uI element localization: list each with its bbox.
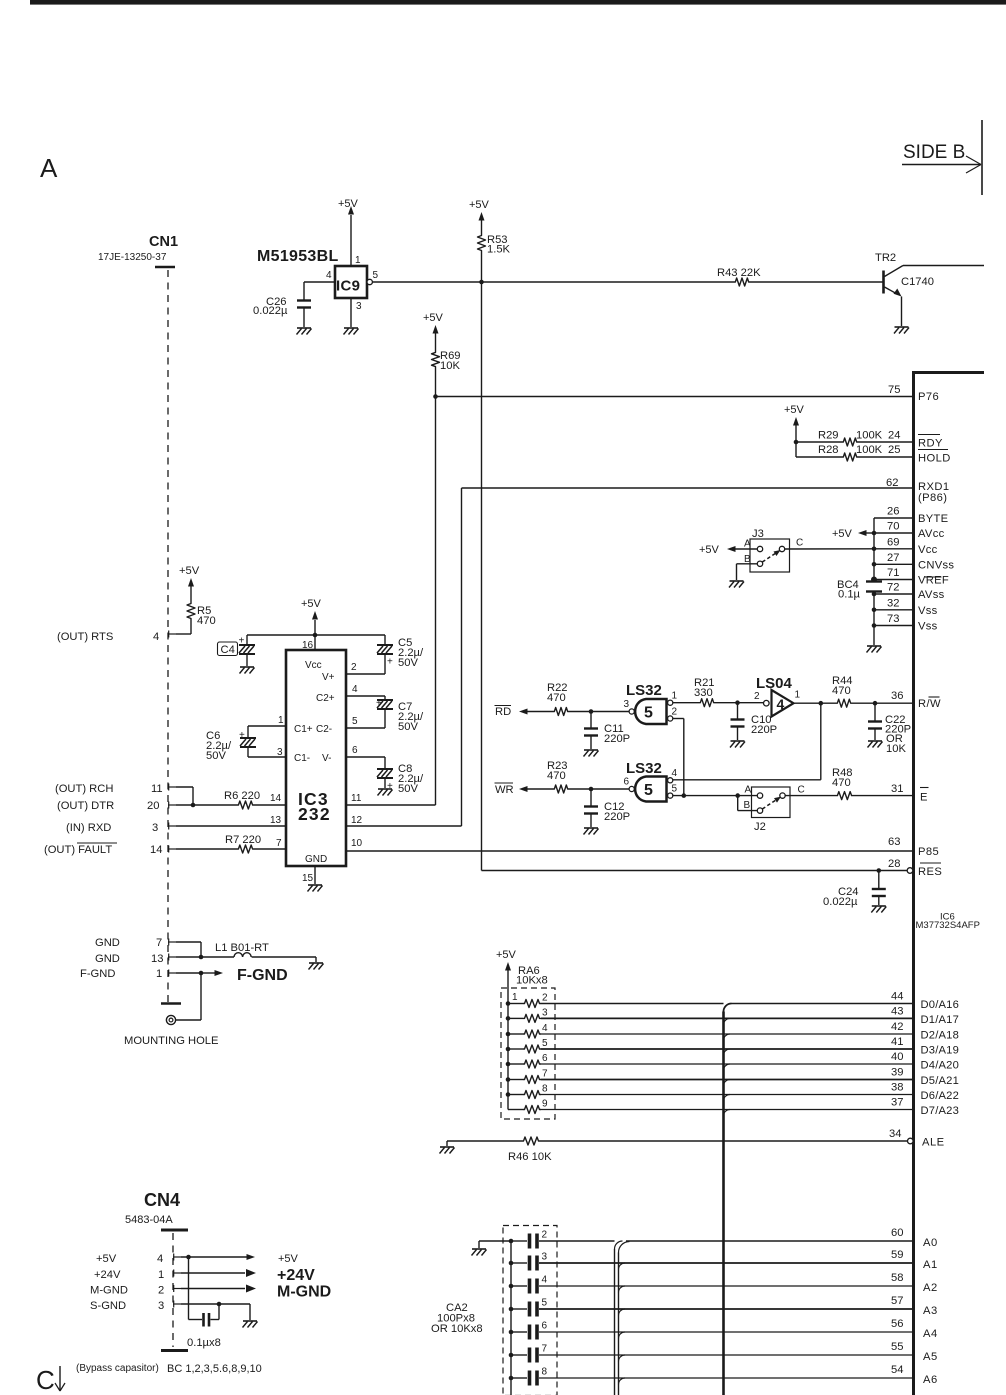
wire D4/A20 row pin 40 xyxy=(541,1063,912,1065)
TR2 collector wire to right edge xyxy=(903,265,984,267)
svg-text:OR 10Kx8: OR 10Kx8 xyxy=(431,1323,483,1335)
svg-text:L1 B01-RT: L1 B01-RT xyxy=(215,942,269,954)
junction R69/P76 row xyxy=(433,394,438,399)
svg-text:R43 22K: R43 22K xyxy=(717,267,761,279)
svg-text:R29: R29 xyxy=(818,430,839,442)
svg-text:LS32: LS32 xyxy=(626,682,662,699)
svg-text:4: 4 xyxy=(153,631,159,643)
wire IC6 pin 26 BYTE xyxy=(874,517,912,519)
wire A6 row pin 54 xyxy=(539,1377,912,1379)
resistor R53 1.5K xyxy=(478,234,486,252)
wire +24V row with arrow xyxy=(181,1272,245,1274)
bus entry hooks on second bus xyxy=(619,1263,626,1270)
svg-text:41: 41 xyxy=(891,1036,903,1048)
svg-text:C2-: C2- xyxy=(316,724,332,735)
svg-text:2: 2 xyxy=(542,993,548,1004)
svg-text:69: 69 xyxy=(887,536,899,548)
svg-text:A3: A3 xyxy=(923,1305,938,1317)
svg-text:5483-04A: 5483-04A xyxy=(125,1214,173,1226)
junction C24 xyxy=(877,868,882,873)
svg-text:220P: 220P xyxy=(751,724,777,736)
ground under C8 xyxy=(378,788,392,790)
second bus vertical (double line) xyxy=(614,1249,616,1395)
svg-text:8: 8 xyxy=(542,1367,548,1378)
svg-text:+5V: +5V xyxy=(278,1253,299,1265)
svg-text:F-GND: F-GND xyxy=(237,967,288,984)
svg-text:WR: WR xyxy=(495,784,514,796)
junction C12 xyxy=(589,787,594,792)
ground under C26 xyxy=(297,327,311,329)
svg-text:D6/A22: D6/A22 xyxy=(921,1090,960,1102)
svg-text:+5V: +5V xyxy=(179,565,200,577)
CN1 pin 11 tick xyxy=(168,784,170,791)
wire RXD1 row from IC3 pin12 riser to IC6 pin 62 xyxy=(462,487,913,489)
vertical wire R53 node down to RES row xyxy=(481,282,483,871)
svg-text:C: C xyxy=(796,538,803,549)
svg-text:(P86): (P86) xyxy=(918,492,947,504)
svg-text:(IN) RXD: (IN) RXD xyxy=(66,822,111,834)
svg-text:54: 54 xyxy=(891,1364,903,1376)
J3 B to ground xyxy=(737,563,758,565)
wire F-GND row xyxy=(176,972,201,974)
svg-text:59: 59 xyxy=(891,1249,903,1261)
svg-text:2: 2 xyxy=(158,1285,164,1297)
gate input bubble pin 1 xyxy=(668,700,673,705)
svg-text:C4: C4 xyxy=(221,644,235,656)
capacitor C26 xyxy=(303,282,305,300)
svg-text:1: 1 xyxy=(672,691,678,702)
resistor R69 10K xyxy=(432,351,440,368)
svg-text:1: 1 xyxy=(278,715,284,726)
connector CN4 dashed body xyxy=(172,1233,174,1347)
svg-text:D4/A20: D4/A20 xyxy=(921,1060,960,1072)
svg-text:A: A xyxy=(40,153,58,183)
svg-text:P76: P76 xyxy=(918,391,939,403)
TR2 emitter with arrow xyxy=(885,287,899,295)
svg-text:C1+: C1+ xyxy=(294,724,313,735)
ground under power bus xyxy=(867,645,881,647)
svg-text:R7 220: R7 220 xyxy=(225,834,261,846)
wire R53 down to node xyxy=(481,252,483,282)
J3 terminal A xyxy=(757,546,762,551)
svg-text:A: A xyxy=(745,785,752,796)
svg-text:A6: A6 xyxy=(923,1374,938,1386)
svg-text:CNVss: CNVss xyxy=(918,559,954,571)
wire IC6 pin 70 AVcc xyxy=(874,532,912,534)
wire L1 to ground xyxy=(252,956,316,958)
CN1 pin 7 tick xyxy=(168,939,170,946)
wire FAULT row to R7 xyxy=(176,848,237,850)
wire A1 row pin 59 xyxy=(539,1262,912,1264)
IC9 pin 4 wire xyxy=(304,281,335,283)
wire RES row xyxy=(482,870,908,872)
connector CN1 bottom bar xyxy=(161,1002,181,1005)
svg-text:D1/A17: D1/A17 xyxy=(921,1014,960,1026)
J2 terminal C xyxy=(780,793,785,798)
wire A5 row pin 55 xyxy=(539,1354,912,1356)
svg-text:32: 32 xyxy=(887,597,899,609)
wire +5V row with arrow xyxy=(181,1256,247,1258)
svg-text:A4: A4 xyxy=(923,1328,938,1340)
svg-text:C: C xyxy=(798,785,805,796)
wire DTR row to R6 xyxy=(176,804,237,806)
ground under C4 xyxy=(240,666,254,668)
capacitor C8 2.2u/50V xyxy=(384,757,386,769)
svg-text:4: 4 xyxy=(542,1023,548,1034)
wire WR row xyxy=(527,788,553,790)
svg-text:M37732S4AFP: M37732S4AFP xyxy=(916,920,980,931)
svg-text:AVss: AVss xyxy=(918,589,945,601)
resistor R22 470 xyxy=(553,708,569,716)
CA2 element pin 4 xyxy=(509,1284,514,1289)
wire pin5 row to J2 and R48 xyxy=(673,795,757,797)
svg-text:58: 58 xyxy=(891,1272,903,1284)
svg-text:+: + xyxy=(376,698,382,709)
svg-text:D5/A21: D5/A21 xyxy=(921,1075,960,1087)
wire S-GND row xyxy=(181,1303,250,1305)
svg-text:BYTE: BYTE xyxy=(918,513,948,525)
IC9 pin 1 wire to +5V xyxy=(350,215,352,266)
svg-text:62: 62 xyxy=(886,477,898,489)
svg-text:3: 3 xyxy=(356,301,362,312)
junction C11 xyxy=(589,709,594,714)
svg-text:4: 4 xyxy=(542,1275,548,1286)
svg-text:70: 70 xyxy=(887,521,899,533)
junction F-GND xyxy=(199,971,204,976)
svg-text:B: B xyxy=(744,800,751,811)
wire D7/A23 row pin 37 xyxy=(541,1109,912,1111)
resistor R44 470 xyxy=(836,699,852,707)
junction S-GND cap riser xyxy=(217,1302,222,1307)
svg-text:A5: A5 xyxy=(923,1351,938,1363)
svg-text:A: A xyxy=(744,539,751,550)
svg-text:R/W: R/W xyxy=(918,698,941,710)
wire GND7 jog xyxy=(176,941,201,943)
junction J2 input xyxy=(735,793,740,798)
Vcc rail over IC3 xyxy=(247,634,385,636)
resistor R29 100K xyxy=(796,441,842,443)
resistor R21 330 xyxy=(699,699,715,707)
ground under C11 xyxy=(584,749,598,751)
gate input bubble pin 2 xyxy=(668,716,673,721)
svg-text:RDY: RDY xyxy=(918,438,943,450)
junction R53/IC9 pin5 xyxy=(479,280,484,285)
CA2 element pin 5 xyxy=(509,1307,514,1312)
capacitor C22 220P OR 10K xyxy=(874,703,876,721)
CA2 element pin 8 xyxy=(509,1376,514,1381)
junction rail xyxy=(313,633,318,638)
CN4 pin 1 tick xyxy=(173,1270,175,1277)
svg-text:+5V: +5V xyxy=(338,198,359,210)
svg-text:+: + xyxy=(239,730,245,741)
J3 blade B to C (dashed) xyxy=(762,552,777,562)
IC3 pin 2 V+ wire xyxy=(346,673,385,675)
RA6 element pin 5 xyxy=(506,1047,511,1052)
svg-text:J3: J3 xyxy=(752,528,764,540)
svg-text:D3/A19: D3/A19 xyxy=(921,1045,960,1057)
J2 terminal B xyxy=(757,808,762,813)
svg-text:(Bypass capasitor): (Bypass capasitor) xyxy=(76,1363,159,1374)
svg-text:GND: GND xyxy=(95,937,120,949)
ground under J3 B xyxy=(730,580,744,582)
svg-text:3: 3 xyxy=(158,1300,164,1312)
vertical wire R69 node down to IC3 pin 11 xyxy=(435,397,437,806)
IC3 pin 6 V- wire xyxy=(346,756,385,758)
svg-text:13: 13 xyxy=(151,953,163,965)
wire IC9 pin5 to node R53 xyxy=(372,281,482,283)
svg-text:C: C xyxy=(36,1365,55,1395)
svg-text:43: 43 xyxy=(891,1005,903,1017)
svg-text:+: + xyxy=(387,657,393,668)
svg-text:75: 75 xyxy=(888,384,900,396)
svg-text:2: 2 xyxy=(754,691,760,702)
wire J2 C to R48 xyxy=(785,795,836,797)
svg-text:BC 1,2,3,5.6,8,9,10: BC 1,2,3,5.6,8,9,10 xyxy=(167,1363,262,1375)
CN1 pin 3 tick xyxy=(168,823,170,830)
wire pin1 to R21 xyxy=(673,702,699,704)
svg-text:IC9: IC9 xyxy=(336,278,360,295)
svg-text:D0/A16: D0/A16 xyxy=(921,999,960,1011)
RA6 element pin 8 xyxy=(506,1092,511,1097)
connector CN4 top bar xyxy=(161,1229,188,1232)
svg-text:M-GND: M-GND xyxy=(277,1284,331,1301)
wire R5 to RTS pin 4 xyxy=(190,620,192,634)
svg-text:100K: 100K xyxy=(856,430,883,442)
wire node to R43 xyxy=(482,281,735,283)
svg-text:4: 4 xyxy=(672,768,678,779)
svg-text:0.022µ: 0.022µ xyxy=(823,896,858,908)
svg-text:MOUNTING HOLE: MOUNTING HOLE xyxy=(124,1035,218,1047)
wire R43 to TR2 base xyxy=(750,281,883,283)
J2 B strap xyxy=(738,810,758,812)
ground under C12 xyxy=(584,827,598,829)
svg-text:CN1: CN1 xyxy=(149,234,178,250)
svg-text:50V: 50V xyxy=(206,750,226,762)
gate input bubble pin 4 xyxy=(668,778,673,783)
svg-text:9: 9 xyxy=(542,1099,548,1110)
svg-text:R28: R28 xyxy=(818,444,839,456)
wire IC6 pin 71 VREF xyxy=(874,579,912,581)
svg-text:D7/A23: D7/A23 xyxy=(921,1105,960,1117)
svg-text:3: 3 xyxy=(152,822,158,834)
svg-text:CN4: CN4 xyxy=(144,1190,180,1210)
svg-text:8: 8 xyxy=(542,1084,548,1095)
ground under TR2 emitter xyxy=(895,326,909,328)
svg-text:5: 5 xyxy=(352,716,358,727)
capacitor C7 2.2u/50V xyxy=(384,696,386,700)
svg-text:GND: GND xyxy=(95,953,120,965)
svg-text:+24V: +24V xyxy=(277,1267,315,1284)
IC3 pin 1 wire xyxy=(248,725,286,727)
capacitor C5 2.2u/50V xyxy=(384,635,386,645)
svg-text:11: 11 xyxy=(151,783,163,795)
resistor R46 10K xyxy=(522,1137,540,1145)
svg-text:39: 39 xyxy=(891,1067,903,1079)
svg-text:F-GND: F-GND xyxy=(80,968,115,980)
svg-text:0.1µ: 0.1µ xyxy=(838,589,861,601)
svg-text:4: 4 xyxy=(326,270,332,281)
svg-text:+5V: +5V xyxy=(832,528,853,540)
svg-text:36: 36 xyxy=(891,690,903,702)
svg-text:+5V: +5V xyxy=(423,312,444,324)
RA6 dashed outline xyxy=(501,988,555,1119)
svg-text:1: 1 xyxy=(158,1269,164,1281)
svg-text:R46 10K: R46 10K xyxy=(508,1151,552,1163)
IC9 pin 3 wire xyxy=(350,298,352,327)
svg-text:71: 71 xyxy=(887,567,899,579)
svg-text:SIDE B: SIDE B xyxy=(903,142,965,163)
svg-text:44: 44 xyxy=(891,991,903,1003)
svg-text:6: 6 xyxy=(624,777,630,788)
resistor R5 470 xyxy=(187,602,195,620)
svg-text:220P: 220P xyxy=(604,733,630,745)
svg-text:3: 3 xyxy=(277,747,283,758)
wire RD row xyxy=(527,711,553,713)
capacitor C4 (boxed label) xyxy=(218,642,238,656)
svg-text:470: 470 xyxy=(197,615,216,627)
svg-text:72: 72 xyxy=(887,582,899,594)
wire IC6 pin 72 AVss xyxy=(874,593,912,595)
resistor R23 470 xyxy=(553,785,569,793)
wire D5/A21 row pin 39 xyxy=(541,1079,912,1081)
svg-text:M51953BL: M51953BL xyxy=(257,248,339,265)
svg-text:1: 1 xyxy=(355,255,361,266)
connector CN1 top bar xyxy=(155,266,175,268)
svg-text:6: 6 xyxy=(542,1053,548,1064)
svg-text:6: 6 xyxy=(542,1321,548,1332)
svg-text:5: 5 xyxy=(542,1298,548,1309)
svg-text:63: 63 xyxy=(888,836,900,848)
gate output bubble pin 6 xyxy=(629,786,634,791)
svg-text:A1: A1 xyxy=(923,1259,938,1271)
ground left of R46 xyxy=(446,1141,448,1146)
jumper J2 xyxy=(752,787,791,818)
RA6 element pin 2 xyxy=(506,1001,511,1006)
svg-text:C1740: C1740 xyxy=(901,276,934,288)
wire RXD row xyxy=(176,825,286,827)
svg-text:0.022µ: 0.022µ xyxy=(253,305,288,317)
svg-text:4: 4 xyxy=(352,684,358,695)
ground under C10 xyxy=(731,740,745,742)
wire M-GND row with arrow xyxy=(181,1288,245,1290)
RA6 element pin 6 xyxy=(506,1062,511,1067)
CN1 pin 13 tick xyxy=(168,954,170,961)
svg-text:100K: 100K xyxy=(856,444,883,456)
svg-text:1: 1 xyxy=(795,690,801,701)
svg-text:A0: A0 xyxy=(923,1237,938,1249)
svg-text:28: 28 xyxy=(888,858,900,870)
svg-text:0.1µx8: 0.1µx8 xyxy=(187,1337,221,1349)
IC3 pin 3 wire xyxy=(248,756,286,758)
IC3 pin 15 GND wire xyxy=(314,866,316,884)
wire P85 row from IC3 pin 10 xyxy=(347,850,912,852)
svg-text:10K: 10K xyxy=(440,360,460,372)
IC6 pin ALE bubble xyxy=(908,1138,914,1144)
svg-text:J2: J2 xyxy=(754,821,766,833)
wire R69 to junction xyxy=(435,368,437,396)
svg-text:470: 470 xyxy=(547,692,566,704)
svg-text:12: 12 xyxy=(351,815,363,826)
svg-text:C2+: C2+ xyxy=(316,693,335,704)
svg-text:38: 38 xyxy=(891,1082,903,1094)
resistor R7 220 xyxy=(237,845,254,853)
IC6 pin RES bubble xyxy=(907,868,913,874)
svg-text:20: 20 xyxy=(147,800,159,812)
CN1 pin 4 tick xyxy=(168,631,170,638)
junction LS04 output riser xyxy=(819,701,824,706)
svg-text:15: 15 xyxy=(302,873,314,884)
svg-text:D2/A18: D2/A18 xyxy=(921,1030,960,1042)
resistor R6 220 xyxy=(237,801,254,809)
mounting hole symbol xyxy=(166,1015,175,1024)
svg-text:31: 31 xyxy=(891,783,903,795)
svg-text:11: 11 xyxy=(351,793,362,804)
svg-text:P85: P85 xyxy=(918,846,939,858)
LS04 input bubble pin 2 xyxy=(764,700,770,706)
CA2 element pin 3 xyxy=(509,1261,514,1266)
svg-text:LS04: LS04 xyxy=(756,675,793,692)
svg-text:25: 25 xyxy=(888,444,900,456)
svg-text:A2: A2 xyxy=(923,1282,938,1294)
svg-text:470: 470 xyxy=(832,685,851,697)
svg-text:V+: V+ xyxy=(322,672,335,683)
svg-text:Vcc: Vcc xyxy=(305,660,322,671)
CA2 common bus xyxy=(510,1241,512,1395)
svg-text:+5V: +5V xyxy=(699,544,720,556)
svg-text:7: 7 xyxy=(542,1069,548,1080)
svg-text:4: 4 xyxy=(157,1253,163,1265)
svg-text:470: 470 xyxy=(832,777,851,789)
svg-text:13: 13 xyxy=(270,815,282,826)
IC3 pin 16 wire xyxy=(314,635,316,650)
svg-text:GND: GND xyxy=(305,854,327,865)
wire A0 row pin 60 xyxy=(539,1240,615,1242)
svg-text:42: 42 xyxy=(891,1021,903,1033)
wire RCH pin 11 jog xyxy=(176,786,193,788)
svg-text:27: 27 xyxy=(887,552,899,564)
RA6 element pin 3 xyxy=(506,1016,511,1021)
bus entry hooks xyxy=(724,1018,731,1025)
svg-text:14: 14 xyxy=(150,844,162,856)
wire D2/A18 row pin 42 xyxy=(541,1033,912,1035)
svg-text:50V: 50V xyxy=(398,783,418,795)
svg-text:220P: 220P xyxy=(604,811,630,823)
IC3 pin 12 wire and riser to RXD1 xyxy=(346,825,462,827)
svg-text:+: + xyxy=(239,636,245,647)
svg-text:5: 5 xyxy=(672,784,678,795)
wire A2 row pin 58 xyxy=(539,1285,912,1287)
power bus vertical at IC6 left xyxy=(873,518,875,582)
capacitor C24 0.022u xyxy=(878,871,880,889)
svg-text:7: 7 xyxy=(276,838,282,849)
junction GND13 row xyxy=(199,955,204,960)
svg-text:5: 5 xyxy=(542,1038,548,1049)
svg-text:(OUT) DTR: (OUT) DTR xyxy=(57,800,114,812)
svg-text:ALE: ALE xyxy=(922,1137,945,1149)
bypass capacitor 0.1ux8 xyxy=(188,1257,190,1320)
svg-text:55: 55 xyxy=(891,1341,903,1353)
svg-text:50V: 50V xyxy=(398,721,418,733)
wire IC6 pin 73 Vss xyxy=(874,625,912,627)
svg-text:5: 5 xyxy=(373,270,379,281)
svg-text:Vcc: Vcc xyxy=(918,544,938,556)
IC3 pin 5 wire xyxy=(346,727,385,729)
wire P76 row to IC6 pin 75 xyxy=(436,396,913,398)
ground left of CA2 xyxy=(478,1241,480,1248)
svg-text:26: 26 xyxy=(887,506,899,518)
svg-text:2: 2 xyxy=(542,1230,548,1241)
connector CN4 bottom bar xyxy=(161,1349,188,1352)
